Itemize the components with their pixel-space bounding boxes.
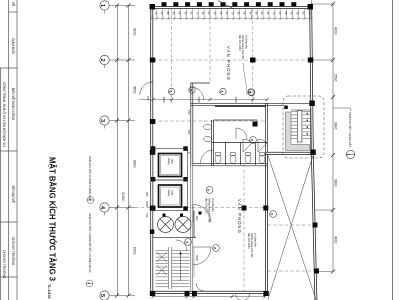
svg-text:2400: 2400 xyxy=(197,97,201,104)
svg-text:BẢN VẼ HOÀN CÔNG: BẢN VẼ HOÀN CÔNG xyxy=(11,88,16,121)
svg-text:1500: 1500 xyxy=(162,97,166,104)
svg-text:3600: 3600 xyxy=(195,255,199,261)
svg-text:5: 5 xyxy=(188,89,192,91)
svg-text:6: 6 xyxy=(206,189,210,191)
svg-text:máy: máy xyxy=(171,159,175,165)
svg-text:750: 750 xyxy=(187,110,191,115)
svg-text:700: 700 xyxy=(145,213,149,218)
svg-text:thang: thang xyxy=(167,158,171,165)
svg-text:1: 1 xyxy=(347,154,351,156)
svg-text:VĂN PHÒNG: VĂN PHÒNG xyxy=(226,46,231,81)
svg-text:3800: 3800 xyxy=(334,122,338,130)
svg-text:XEM CHI TIẾT THANG SẮT: XEM CHI TIẾT THANG SẮT xyxy=(348,112,353,147)
svg-text:XEM CHI TIẾT THANG BỘ SỐ 1 Ở B: XEM CHI TIẾT THANG BỘ SỐ 1 Ở BẢN VẼ KC xyxy=(88,213,93,273)
svg-text:3400: 3400 xyxy=(234,97,238,104)
svg-text:YÊN BÁI VẼ: YÊN BÁI VẼ xyxy=(11,185,16,203)
svg-text:MẶT BẰNG KÍCH THƯỚC TẦNG 3: MẶT BẰNG KÍCH THƯỚC TẦNG 3 xyxy=(48,157,59,281)
svg-text:đèn 12V 220V: đèn 12V 220V xyxy=(238,35,241,51)
svg-text:6600: 6600 xyxy=(133,160,137,168)
svg-text:150: 150 xyxy=(146,96,150,101)
svg-text:4000: 4000 xyxy=(334,236,338,244)
svg-text:vô chân nến: vô chân nến xyxy=(244,35,247,49)
svg-text:6: 6 xyxy=(212,247,216,249)
svg-text:900: 900 xyxy=(195,216,199,221)
svg-text:6: 6 xyxy=(184,241,188,243)
svg-text:GIÁM ĐỐC: GIÁM ĐỐC xyxy=(11,38,16,55)
svg-text:1: 1 xyxy=(99,4,105,7)
svg-text:6300: 6300 xyxy=(133,247,137,255)
svg-text:6: 6 xyxy=(269,213,273,215)
svg-text:máy: máy xyxy=(171,191,175,197)
svg-text:vô chân nến: vô chân nến xyxy=(211,198,214,212)
svg-text:6: 6 xyxy=(248,92,252,94)
svg-text:CHỈ HUY TRƯỞNG: CHỈ HUY TRƯỞNG xyxy=(11,237,16,266)
svg-text:3: 3 xyxy=(99,119,105,122)
svg-text:VĂN PHÒNG: VĂN PHÒNG xyxy=(237,199,242,234)
svg-text:2500: 2500 xyxy=(334,74,338,82)
svg-text:5: 5 xyxy=(219,91,223,93)
svg-text:thang: thang xyxy=(167,190,171,197)
svg-text:5: 5 xyxy=(99,294,105,297)
svg-text:2: 2 xyxy=(99,58,105,61)
svg-text:chống chung treo trần: chống chung treo trần xyxy=(208,198,211,223)
svg-text:chống chung treo trần: chống chung treo trần xyxy=(250,233,253,258)
svg-text:6: 6 xyxy=(249,139,253,141)
svg-text:vô chân nến: vô chân nến xyxy=(253,233,256,247)
svg-text:1600: 1600 xyxy=(145,201,149,207)
svg-text:4000: 4000 xyxy=(334,27,338,35)
svg-text:CÔNG TRÌNH: NHÀ Ở VÀ CĂN HỘ DỊ: CÔNG TRÌNH: NHÀ Ở VÀ CĂN HỘ DỊCH VỤ xyxy=(2,82,7,147)
svg-text:3600: 3600 xyxy=(334,179,338,187)
svg-text:400: 400 xyxy=(145,192,149,197)
svg-text:21400: 21400 xyxy=(121,192,125,202)
svg-text:VẼ: VẼ xyxy=(11,2,16,6)
svg-text:5: 5 xyxy=(168,91,172,93)
svg-text:900: 900 xyxy=(187,130,191,135)
svg-text:đèn 12V 220V: đèn 12V 220V xyxy=(205,198,208,214)
svg-text:đèn 12V 220V: đèn 12V 220V xyxy=(247,233,250,249)
svg-text:TL:1/100: TL:1/100 xyxy=(47,284,51,299)
svg-text:CHỈ HUY TRƯỞNG: CHỈ HUY TRƯỞNG xyxy=(2,250,7,279)
svg-text:4500: 4500 xyxy=(133,86,137,94)
svg-text:XEM CHI TIẾT Ở BẢN THANG SẮT: XEM CHI TIẾT Ở BẢN THANG SẮT xyxy=(88,156,93,201)
svg-text:chống chung treo trần: chống chung treo trần xyxy=(241,35,244,60)
svg-text:4000: 4000 xyxy=(133,28,137,36)
